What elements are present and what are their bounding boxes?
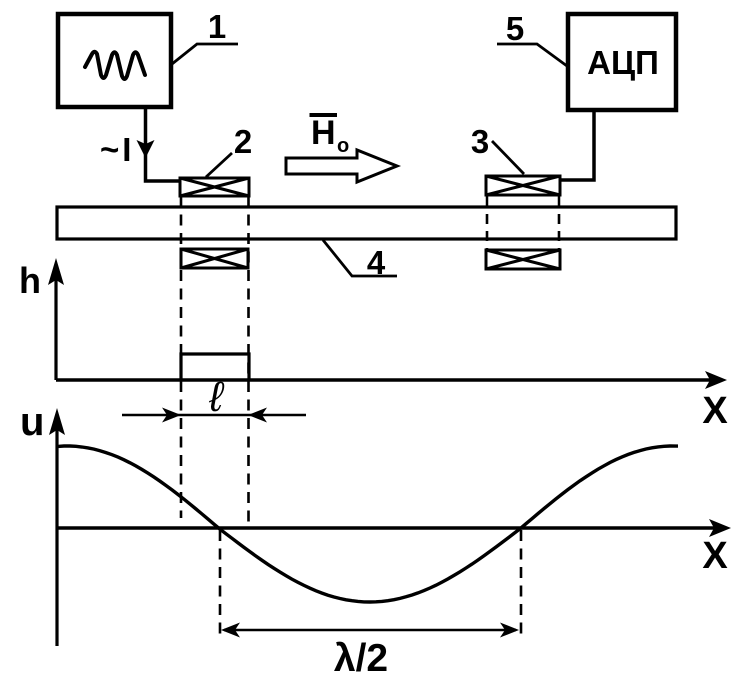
generator box U1 — [58, 14, 171, 107]
ADC box U5 — [568, 14, 676, 110]
l left arrowhead — [162, 408, 181, 423]
u X axis arrowhead — [709, 519, 731, 537]
svg-text:4: 4 — [367, 244, 386, 281]
l dimension line — [122, 414, 306, 417]
svg-text:h: h — [19, 260, 41, 301]
overbar on H — [310, 113, 338, 117]
dashed line at right wave zero crossing — [520, 530, 523, 636]
wire from ADC down to coil 3 — [560, 110, 594, 180]
u axis arrowhead — [49, 408, 65, 435]
svg-text:u: u — [20, 400, 44, 444]
svg-text:X: X — [702, 535, 728, 577]
leader line to label 1 — [172, 44, 238, 64]
svg-text:АЦП: АЦП — [587, 44, 659, 81]
H0 field arrow — [286, 150, 397, 182]
leader line to label 4 — [323, 240, 397, 276]
u axis vertical — [55, 418, 58, 646]
svg-text:H: H — [311, 114, 336, 152]
u graph X axis — [57, 526, 719, 529]
svg-text:ℓ: ℓ — [208, 373, 225, 420]
leader line to label 5 — [497, 44, 567, 66]
current arrow on wire — [137, 140, 155, 158]
wire from generator down — [146, 107, 181, 181]
lambda/2 left arrowhead — [221, 623, 240, 638]
coil L2 upper — [180, 178, 249, 196]
dashed line right of coil 3 — [558, 214, 561, 250]
coil L3 upper — [486, 176, 560, 195]
dashed line left of coil 3 — [486, 214, 489, 250]
u wave curve — [58, 446, 678, 602]
dashed line right of coil 2 — [247, 196, 250, 527]
h graph X axis — [56, 378, 715, 381]
svg-text:2: 2 — [234, 123, 252, 160]
sine symbol inside generator — [85, 52, 145, 79]
svg-text:~I: ~I — [100, 131, 131, 168]
dashed line at left wave zero crossing — [219, 530, 222, 636]
svg-text:5: 5 — [506, 10, 524, 47]
svg-text:3: 3 — [471, 123, 489, 160]
leader line to label 3 — [492, 141, 524, 174]
dashed line left of coil 2 — [180, 196, 183, 518]
waveguide bar 4 — [57, 207, 676, 239]
lambda/2 right arrowhead — [500, 623, 519, 638]
pulse on h graph — [181, 354, 249, 379]
svg-text:λ/2: λ/2 — [334, 637, 388, 679]
svg-text:1: 1 — [208, 8, 226, 45]
coil 3 legs to bar — [487, 195, 559, 207]
svg-text:X: X — [702, 390, 728, 432]
svg-text:о: о — [337, 135, 349, 157]
h axis vertical — [54, 268, 57, 380]
coil L2 lower — [181, 249, 248, 268]
leader line to label 2 — [206, 153, 232, 177]
l right arrowhead — [248, 408, 267, 423]
coil L3 lower — [486, 250, 560, 269]
h axis arrowhead — [48, 258, 64, 285]
lambda/2 dimension line — [224, 629, 516, 632]
h X axis arrowhead — [705, 371, 727, 389]
